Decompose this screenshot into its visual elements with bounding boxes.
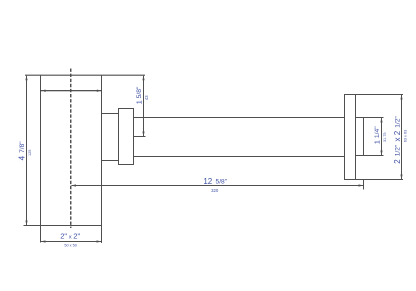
dim 1 5/8 line (143, 76, 145, 137)
dim 1 5/8 bottom extension (134, 136, 146, 138)
dim 2x2 line (41, 241, 101, 243)
svg-text:1 5/8": 1 5/8" (135, 86, 144, 104)
svg-text:63 x 63: 63 x 63 (404, 130, 408, 142)
wall face line (363, 118, 365, 156)
cap line tick left (44, 90, 46, 92)
pipe bottom (134, 156, 345, 158)
dim 4 7/8 line (26, 76, 28, 225)
dim 2.5x2.5 top extension (356, 94, 404, 96)
dim 1 1/4 line (381, 118, 383, 155)
svg-text:2 1/2" x 2 1/2": 2 1/2" x 2 1/2" (393, 116, 402, 164)
dim 12 5/8 line (72, 185, 364, 187)
pipe stub top (356, 117, 384, 119)
svg-text:1 1/4": 1 1/4" (372, 126, 381, 144)
svg-text:125: 125 (28, 150, 32, 156)
centerline (dashed) (70, 69, 72, 229)
trap body outline (24, 75, 146, 243)
cap line (41, 90, 102, 92)
dim 12 5/8 right extension (363, 179, 365, 190)
connector tube top (102, 113, 119, 115)
svg-text:12 5/8": 12 5/8" (203, 177, 227, 186)
svg-text:43: 43 (144, 95, 149, 100)
top line with extensions (25, 74, 145, 76)
svg-text:31.75: 31.75 (383, 133, 387, 143)
nut (119, 109, 134, 165)
svg-text:4 7/8": 4 7/8" (18, 141, 27, 161)
body right edge + lower extension (101, 75, 103, 243)
svg-text:50 x 50: 50 x 50 (64, 243, 76, 247)
body left edge + lower extension (40, 75, 42, 242)
dim 2.5x2.5 line (401, 95, 403, 179)
pipe stub bottom (356, 155, 384, 157)
body bottom with left extension (24, 225, 102, 227)
cap line tick right (96, 90, 98, 92)
svg-text:320: 320 (211, 188, 219, 193)
pipe top (134, 117, 345, 119)
wall plate (345, 95, 356, 180)
connector tube bottom (102, 160, 119, 162)
dim 2.5x2.5 bottom extension (356, 179, 404, 181)
